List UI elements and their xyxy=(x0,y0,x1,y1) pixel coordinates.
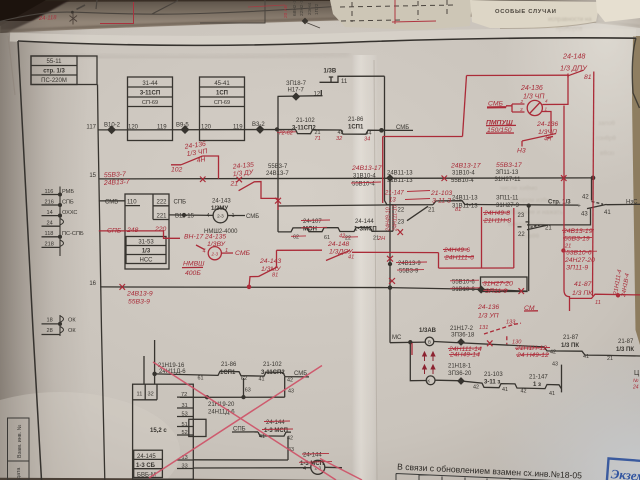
svg-text:18: 18 xyxy=(47,317,53,323)
svg-text:31: 31 xyxy=(182,403,188,409)
svg-text:ПМПУШ: ПМПУШ xyxy=(486,119,513,126)
svg-text:запоθ: запоθ xyxy=(598,120,615,127)
red line top right of sheet above xyxy=(248,5,285,7)
row wire y397 xyxy=(180,396,285,398)
svg-text:НСС: НСС xyxy=(140,258,154,264)
svg-text:21-86: 21-86 xyxy=(221,362,237,368)
svg-text:34: 34 xyxy=(364,137,370,143)
svg-text:ЗП36-18: ЗП36-18 xyxy=(451,333,475,339)
terminal rows left xyxy=(42,187,64,257)
svg-text:4: 4 xyxy=(203,248,206,254)
svg-text:400Б: 400Б xyxy=(185,270,201,277)
red underlines xyxy=(182,108,538,311)
bottom table cells xyxy=(396,474,561,480)
coil ЧП right wire xyxy=(542,76,568,134)
svg-text:52: 52 xyxy=(182,430,188,436)
svg-text:32: 32 xyxy=(336,136,343,142)
svg-text:ЗП18-7: ЗП18-7 xyxy=(286,81,307,87)
svg-text:51: 51 xyxy=(182,422,188,428)
svg-text:2Н: 2Н xyxy=(377,236,386,242)
contact group 1/ЗМУ xyxy=(393,201,470,232)
branch stroke on sheet above xyxy=(77,5,86,9)
svg-text:24В11-13: 24В11-13 xyxy=(452,196,478,202)
svg-text:72: 72 xyxy=(181,392,187,398)
svg-text:23: 23 xyxy=(398,220,405,226)
svg-text:24Н27-20: 24Н27-20 xyxy=(564,257,595,264)
bottom-left block БВБ-М xyxy=(133,384,194,479)
coil 1/3МУ xyxy=(213,208,228,223)
svg-text:133: 133 xyxy=(506,320,516,326)
СПБ МСП contact xyxy=(232,432,291,460)
red wire ПК row xyxy=(570,294,640,298)
tick mark on sheet above xyxy=(96,0,97,9)
svg-text:В3-2: В3-2 xyxy=(252,122,265,128)
svg-text:31Н27-9: 31Н27-9 xyxy=(496,203,520,209)
svg-text:ЗП36-20: ЗП36-20 xyxy=(448,371,472,377)
wire on sheet above xyxy=(0,7,335,22)
box right of 51-52 xyxy=(189,419,206,436)
svg-text:41: 41 xyxy=(549,391,555,397)
svg-text:131: 131 xyxy=(479,325,488,331)
svg-text:2: 2 xyxy=(520,99,524,104)
red riser V4 xyxy=(564,106,570,312)
svg-text:В11-15: В11-15 xyxy=(175,213,195,219)
svg-text:4: 4 xyxy=(303,466,306,472)
svg-text:24 Н49-12: 24 Н49-12 xyxy=(516,352,549,359)
svg-text:24-136: 24-136 xyxy=(477,304,499,311)
svg-text:СП-69: СП-69 xyxy=(142,100,158,106)
svg-text:28: 28 xyxy=(47,328,53,334)
svg-text:43: 43 xyxy=(288,389,294,395)
svg-text:41: 41 xyxy=(502,387,508,393)
svg-text:42: 42 xyxy=(582,194,589,200)
sidebar box Взам.инв. xyxy=(8,418,30,480)
svg-text:21-103: 21-103 xyxy=(484,372,503,378)
svg-text:55-11: 55-11 xyxy=(47,59,63,65)
red ЗАВ marks xyxy=(411,343,413,355)
big red cross X bottom-left xyxy=(149,362,362,480)
svg-text:21: 21 xyxy=(428,208,435,214)
svg-text:24Н111-6: 24Н111-6 xyxy=(444,255,474,262)
svg-text:222: 222 xyxy=(157,199,168,205)
svg-text:68Н2-1: 68Н2-1 xyxy=(292,0,298,16)
svg-text:1-3 СБ: 1-3 СБ xyxy=(136,463,156,469)
svg-text:1 з: 1 з xyxy=(533,382,541,388)
svg-text:24Н111-10: 24Н111-10 xyxy=(393,205,399,232)
svg-text:ОСОБЫЕ СЛУЧАИ: ОСОБЫЕ СЛУЧАИ xyxy=(495,9,557,15)
svg-text:1/3АВ: 1/3АВ xyxy=(419,328,437,334)
svg-text:исправности на: исправности на xyxy=(548,17,592,23)
svg-text:1СП: 1СП xyxy=(216,91,228,97)
node В9-5 xyxy=(181,126,188,133)
svg-text:24В13-17: 24В13-17 xyxy=(351,165,382,172)
frame top border xyxy=(18,38,636,46)
svg-text:43: 43 xyxy=(581,212,588,218)
svg-text:42: 42 xyxy=(287,378,293,384)
svg-text:ЗП11-9: ЗП11-9 xyxy=(485,288,507,295)
ghost print-through right side xyxy=(548,17,592,33)
svg-text:150/150: 150/150 xyxy=(487,127,512,134)
red top wire ДПУ xyxy=(467,74,569,76)
red contact УП lower xyxy=(484,323,521,344)
svg-text:24-143: 24-143 xyxy=(212,199,231,205)
svg-text:1/3 ПК: 1/3 ПК xyxy=(616,347,634,353)
svg-text:81: 81 xyxy=(584,74,592,81)
svg-text:21-147: 21-147 xyxy=(529,374,548,380)
МОН drop from wire15 xyxy=(277,96,279,232)
red corner on sheet above xyxy=(100,2,134,24)
svg-text:55В3-9: 55В3-9 xyxy=(128,299,150,306)
svg-text:24В13-19: 24В13-19 xyxy=(562,228,593,235)
margin band above frame xyxy=(10,33,636,41)
relay block СПБ xyxy=(125,194,169,269)
svg-text:1СП1: 1СП1 xyxy=(348,124,364,130)
svg-text:72-62: 72-62 xyxy=(279,130,294,136)
svg-text:31Н27-11: 31Н27-11 xyxy=(495,177,522,183)
svg-text:24-145: 24-145 xyxy=(137,454,156,460)
svg-text:21-102: 21-102 xyxy=(296,118,315,124)
svg-text:1: 1 xyxy=(232,213,235,219)
svg-text:1/3В: 1/3В xyxy=(324,69,337,75)
svg-text:ПС-220М: ПС-220М xyxy=(41,78,67,84)
coil ЧП xyxy=(527,100,542,115)
red contact ДУ below wire15 xyxy=(239,182,278,210)
svg-text:42: 42 xyxy=(287,436,293,442)
svg-text:24В13-9: 24В13-9 xyxy=(126,291,153,298)
svg-text:4: 4 xyxy=(545,99,548,104)
svg-text:24-144: 24-144 xyxy=(355,219,374,225)
wire 221 to coil xyxy=(169,214,213,217)
svg-text:33: 33 xyxy=(182,464,188,470)
svg-text:24Н49-8: 24Н49-8 xyxy=(483,210,510,217)
svg-text:ОХХС: ОХХС xyxy=(62,210,77,216)
svg-text:стр. 1/3: стр. 1/3 xyxy=(43,69,65,75)
svg-text:216: 216 xyxy=(45,199,54,205)
svg-text:СПБ: СПБ xyxy=(174,199,187,205)
svg-text:3: 3 xyxy=(520,107,523,112)
stub СМБ to block xyxy=(99,200,125,202)
vertical СМБ drop xyxy=(385,76,394,205)
svg-text:24: 24 xyxy=(632,385,639,391)
wire 16 xyxy=(100,287,527,291)
svg-text:71: 71 xyxy=(315,136,321,142)
svg-text:20 АБ: 20 АБ xyxy=(283,5,289,18)
svg-text:31-44: 31-44 xyxy=(142,81,158,87)
svg-text:СМБ: СМБ xyxy=(488,101,503,108)
svg-text:15: 15 xyxy=(89,173,96,179)
svg-text:1/3МУ: 1/3МУ xyxy=(211,206,228,212)
svg-text:21-103: 21-103 xyxy=(430,190,452,197)
svg-text:21-86: 21-86 xyxy=(348,117,364,123)
svg-text:21: 21 xyxy=(545,225,552,231)
svg-text:43: 43 xyxy=(552,361,558,367)
relay box 1СП xyxy=(200,77,245,141)
svg-text:21: 21 xyxy=(230,181,239,188)
svg-text:32: 32 xyxy=(148,392,154,398)
svg-text:НМВШ: НМВШ xyxy=(183,260,205,267)
svg-text:13: 13 xyxy=(389,198,396,204)
svg-text:К: К xyxy=(427,378,430,383)
svg-text:вθсει: вθсει xyxy=(600,150,615,157)
svg-text:В: В xyxy=(428,339,431,344)
dark top-left corner xyxy=(0,0,70,38)
svg-text:21: 21 xyxy=(607,356,613,362)
node diamond H17 xyxy=(293,93,300,100)
relay box 3-11СП xyxy=(128,77,173,141)
svg-text:24-148: 24-148 xyxy=(562,52,585,61)
svg-text:Стр. 1/3: Стр. 1/3 xyxy=(548,200,571,206)
terminal rows ОК xyxy=(42,315,64,336)
coil 1-3МСП xyxy=(311,460,325,474)
svg-text:Взам. инв. №: Взам. инв. № xyxy=(17,424,23,458)
svg-text:1СП1: 1СП1 xyxy=(220,370,236,376)
svg-text:248: 248 xyxy=(126,227,139,234)
svg-text:Ц: Ц xyxy=(634,370,640,377)
bus П vertical xyxy=(98,85,105,480)
svg-text:1/3ЧП: 1/3ЧП xyxy=(538,129,557,136)
svg-text:1П22: 1П22 xyxy=(314,3,320,15)
svg-text:42: 42 xyxy=(550,349,556,355)
svg-text:110: 110 xyxy=(127,199,137,205)
svg-text:53В10-6: 53В10-6 xyxy=(566,249,592,256)
svg-text:ЗП11-9: ЗП11-9 xyxy=(566,265,588,272)
svg-text:гонθрθ: гонθрθ xyxy=(596,135,616,142)
node В10-2 xyxy=(108,126,115,133)
svg-text:дата: дата xyxy=(16,468,22,479)
vertical refs on sheet above xyxy=(292,0,320,16)
svg-text:118: 118 xyxy=(45,231,54,237)
svg-text:41-87: 41-87 xyxy=(574,281,592,288)
svg-text:31-53: 31-53 xyxy=(138,239,154,245)
svg-text:63: 63 xyxy=(245,387,251,393)
svg-text:21Н18-1: 21Н18-1 xyxy=(448,364,472,370)
crease shading xyxy=(30,54,350,58)
svg-text:В9-5: В9-5 xyxy=(176,122,189,128)
svg-text:55В10-4: 55В10-4 xyxy=(451,178,474,184)
svg-text:55В3-19: 55В3-19 xyxy=(564,236,590,243)
svg-text:СМБ: СМБ xyxy=(396,125,409,131)
svg-text:Н17-7: Н17-7 xyxy=(288,88,305,94)
contact chain МОН xyxy=(278,227,393,232)
wire 15 xyxy=(99,178,593,179)
red contact 1/3МУ blade xyxy=(259,267,278,277)
blue stamp Экземпляр xyxy=(607,458,640,480)
svg-text:44: 44 xyxy=(366,130,372,136)
svg-text:45-41: 45-41 xyxy=(214,81,230,87)
lamp К contact chain xyxy=(463,365,562,393)
svg-text:НзС: НзС xyxy=(626,199,638,205)
long row lines xyxy=(193,460,310,468)
red H3 to box xyxy=(352,251,439,253)
vertical fold highlight xyxy=(352,55,378,480)
block row stubs xyxy=(177,397,193,468)
svg-text:1/3 ПК: 1/3 ПК xyxy=(561,343,579,349)
svg-text:24-148: 24-148 xyxy=(327,241,349,248)
svg-text:24-143: 24-143 xyxy=(259,258,281,265)
svg-text:4Н: 4Н xyxy=(196,156,206,164)
svg-text:21-87: 21-87 xyxy=(563,335,579,341)
svg-text:31В10-4: 31В10-4 xyxy=(353,173,376,179)
svg-text:120: 120 xyxy=(201,124,212,130)
node mark on sheet above xyxy=(70,13,78,25)
red horizontal H1 xyxy=(383,136,463,138)
svg-text:1/3 ДПУ: 1/3 ДПУ xyxy=(560,64,588,73)
svg-text:53: 53 xyxy=(182,412,188,418)
svg-text:№: № xyxy=(633,378,639,384)
svg-text:11: 11 xyxy=(137,392,143,398)
svg-text:14: 14 xyxy=(47,210,53,216)
63 stub xyxy=(243,378,245,397)
svg-text:21Н17-2: 21Н17-2 xyxy=(450,326,474,332)
top contact chain 1СП1/3-11СП2 xyxy=(155,371,309,377)
H17-7 stub xyxy=(278,90,323,96)
svg-text:числе хиθмо: числе хиθмо xyxy=(500,185,538,192)
node В3-2 xyxy=(256,126,263,133)
svg-text:4Н: 4Н xyxy=(544,137,552,143)
svg-text:3-11СП2: 3-11СП2 xyxy=(292,126,316,132)
svg-text:62: 62 xyxy=(241,376,247,382)
svg-text:62: 62 xyxy=(293,235,299,241)
black corner on sheet above xyxy=(200,0,265,23)
svg-text:Н3: Н3 xyxy=(517,148,526,155)
svg-text:220: 220 xyxy=(154,226,167,233)
frame right border xyxy=(632,38,639,108)
svg-text:3-11СП: 3-11СП xyxy=(140,91,160,97)
bottom dark table edge xyxy=(0,478,345,480)
contact 1/3ЧП blade xyxy=(522,134,556,147)
svg-text:ОК: ОК xyxy=(68,328,76,334)
svg-text:120: 120 xyxy=(128,124,139,130)
svg-text:16: 16 xyxy=(89,281,96,287)
svg-text:СМБ: СМБ xyxy=(246,214,259,220)
svg-text:3-11 з: 3-11 з xyxy=(484,379,500,385)
svg-text:4: 4 xyxy=(207,213,210,219)
svg-text:ЗП11-11: ЗП11-11 xyxy=(496,195,519,201)
svg-text:24Н49-10: 24Н49-10 xyxy=(386,207,392,232)
svg-text:В10-2: В10-2 xyxy=(104,122,121,128)
coil ЧП left wire xyxy=(487,104,525,112)
svg-text:119: 119 xyxy=(233,124,243,130)
svg-text:61: 61 xyxy=(198,376,204,382)
svg-text:22: 22 xyxy=(398,208,405,214)
ОСОБЫЕ СЛУЧАИ sheet xyxy=(470,0,600,28)
svg-text:24-135: 24-135 xyxy=(204,234,226,241)
svg-text:42: 42 xyxy=(521,388,527,394)
changeover 23-21-22 xyxy=(518,206,549,292)
svg-text:СМБ: СМБ xyxy=(235,250,250,257)
svg-text:23: 23 xyxy=(518,213,525,219)
block feed verticals xyxy=(144,340,155,384)
svg-text:2-3: 2-3 xyxy=(210,251,218,256)
red wire loop left riser xyxy=(382,137,384,204)
svg-text:24В11-13: 24В11-13 xyxy=(387,170,413,176)
link to НзС contact xyxy=(470,204,578,207)
svg-text:1: 1 xyxy=(225,248,228,254)
red riser V1 xyxy=(463,76,467,137)
diagonal on sheet above xyxy=(152,1,178,15)
svg-text:15,2 с: 15,2 с xyxy=(150,428,167,434)
red box path xyxy=(439,207,514,268)
svg-text:Экзем: Экзем xyxy=(610,466,640,480)
svg-text:ВН-17: ВН-17 xyxy=(184,233,203,240)
wire МОН row xyxy=(278,205,393,206)
svg-text:102: 102 xyxy=(171,167,183,174)
svg-text:СПБ: СПБ xyxy=(62,199,74,205)
red handwriting labels xyxy=(103,52,631,359)
node diamond on sheet above xyxy=(302,18,309,25)
svg-text:31В11-13: 31В11-13 xyxy=(387,178,413,184)
svg-text:21-87: 21-87 xyxy=(618,339,634,345)
RED ANNOTATION LAYER xyxy=(99,70,640,355)
upper backdrop sheet strip xyxy=(0,0,640,60)
svg-text:МС: МС xyxy=(392,335,402,341)
43 drop xyxy=(284,377,286,397)
svg-text:12: 12 xyxy=(314,91,321,97)
svg-text:24-136: 24-136 xyxy=(520,85,543,92)
1/3В contact xyxy=(320,76,385,82)
svg-text:11: 11 xyxy=(341,79,348,85)
contact ДПУ blade xyxy=(568,70,584,76)
svg-text:2-3: 2-3 xyxy=(217,214,224,219)
red contact 24-148 blade xyxy=(326,251,350,261)
svg-text:24В13-7: 24В13-7 xyxy=(103,179,130,187)
frame left border xyxy=(18,41,42,480)
svg-text:ПС-СПБ: ПС-СПБ xyxy=(62,231,84,237)
svg-text:41: 41 xyxy=(604,210,611,216)
lamp К circuit xyxy=(410,342,426,381)
svg-text:31В10-4: 31В10-4 xyxy=(452,171,475,177)
red wire into СПБ coil xyxy=(99,231,205,250)
svg-text:24-136: 24-136 xyxy=(536,121,558,128)
red contact 102 xyxy=(171,156,219,179)
svg-text:55В3-7: 55В3-7 xyxy=(268,164,288,170)
НзС changeover xyxy=(527,178,640,225)
svg-text:22: 22 xyxy=(518,232,525,238)
node diamond wire16 xyxy=(478,286,485,293)
junction dot on sheet above xyxy=(71,11,74,14)
svg-text:СМ: СМ xyxy=(524,305,535,312)
svg-text:СМБ: СМБ xyxy=(105,199,118,205)
svg-text:1-ЗМСП: 1-ЗМСП xyxy=(354,226,377,232)
svg-text:41: 41 xyxy=(259,376,265,382)
svg-text:42: 42 xyxy=(473,384,479,390)
title block ПС-220М xyxy=(31,56,97,85)
left paper edge xyxy=(8,36,15,95)
svg-text:81: 81 xyxy=(272,272,278,278)
svg-text:1/3ВУ: 1/3ВУ xyxy=(207,241,226,248)
svg-text:24: 24 xyxy=(47,220,53,226)
svg-text:1: 1 xyxy=(545,107,548,112)
node СМБ junction xyxy=(380,129,383,132)
svg-text:116: 116 xyxy=(45,189,54,195)
svg-text:24В13-7: 24В13-7 xyxy=(266,171,289,177)
svg-text:1/3 ЧП: 1/3 ЧП xyxy=(523,94,545,101)
svg-text:+: + xyxy=(577,203,581,210)
svg-text:41: 41 xyxy=(348,254,354,260)
svg-text:24Н49-6: 24Н49-6 xyxy=(443,247,470,254)
svg-text:ЗП11-13: ЗП11-13 xyxy=(496,170,520,176)
svg-text:1/3 ПК: 1/3 ПК xyxy=(572,290,593,297)
svg-text:119: 119 xyxy=(157,124,167,130)
svg-text:СПБ: СПБ xyxy=(233,427,246,433)
svg-text:81: 81 xyxy=(455,207,461,213)
lamp В circuit xyxy=(390,288,425,343)
svg-text:11: 11 xyxy=(595,300,601,306)
svg-text:21-102: 21-102 xyxy=(263,362,282,368)
red drop to МУ contact xyxy=(277,250,323,267)
svg-text:31Н27-20: 31Н27-20 xyxy=(483,280,513,287)
svg-text:РМБ: РМБ xyxy=(62,189,74,195)
